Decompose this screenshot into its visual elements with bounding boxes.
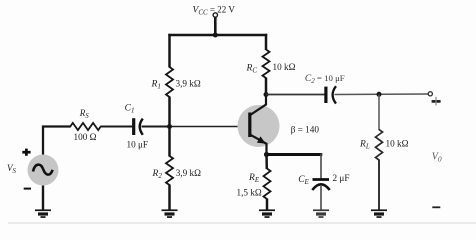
resistor RC xyxy=(263,50,270,79)
node RL junction xyxy=(377,92,382,97)
ground under R2 xyxy=(162,209,178,218)
capacitor C1 curved plate xyxy=(140,119,143,135)
wire RE bottom lead xyxy=(266,199,269,210)
resistor RE xyxy=(264,169,271,200)
transistor Q1 body xyxy=(238,105,280,147)
svg-text:10 μF: 10 μF xyxy=(127,139,149,149)
capacitor CE top plate xyxy=(313,178,330,181)
ground under VS xyxy=(35,209,51,218)
wire base line xyxy=(168,126,249,128)
wire C1 to base node xyxy=(142,126,170,128)
scan artifact line bottom xyxy=(8,222,476,223)
resistor RL xyxy=(376,130,383,161)
svg-text:1,5 kΩ: 1,5 kΩ xyxy=(237,187,262,197)
source plus sign xyxy=(22,149,30,156)
wire R2 top lead xyxy=(168,127,171,157)
node emitter junction xyxy=(264,152,269,157)
wire RL top lead xyxy=(378,94,380,130)
svg-text:C1: C1 xyxy=(125,104,135,115)
wire R1 top lead xyxy=(168,34,171,68)
svg-text:10 kΩ: 10 kΩ xyxy=(273,62,296,72)
ground under CE xyxy=(313,209,329,218)
capacitor C2 curved plate xyxy=(333,86,336,103)
resistor RS xyxy=(70,123,100,130)
source minus sign xyxy=(24,188,31,190)
capacitor CE curved plate xyxy=(312,184,329,190)
node base junction xyxy=(167,124,172,129)
wire VS to RS xyxy=(43,127,71,156)
transistor Q1 collector stroke xyxy=(251,95,267,115)
output plus sign xyxy=(432,97,441,106)
transistor Q1 emitter stroke xyxy=(251,135,267,155)
resistor R2 xyxy=(166,156,173,185)
svg-text:10 kΩ: 10 kΩ xyxy=(386,138,409,148)
transistor Q1 emitter arrow xyxy=(257,136,266,143)
svg-text:R1: R1 xyxy=(151,80,161,91)
svg-text:RL: RL xyxy=(359,139,370,150)
wire R1 bottom lead xyxy=(168,97,171,128)
svg-text:V0: V0 xyxy=(432,152,442,164)
source VS sine xyxy=(33,165,53,175)
wire top rail xyxy=(168,34,267,37)
svg-text:C2 = 10 μF: C2 = 10 μF xyxy=(305,73,345,85)
wire RE top lead xyxy=(265,155,268,170)
svg-text:100 Ω: 100 Ω xyxy=(74,132,97,142)
node VCC rail junction xyxy=(213,33,218,38)
wire RL bottom lead xyxy=(378,160,380,210)
wire CE bottom lead xyxy=(320,186,322,210)
svg-text:RE: RE xyxy=(248,173,260,184)
svg-text:VCC = 22 V: VCC = 22 V xyxy=(193,5,236,17)
svg-text:3,9 kΩ: 3,9 kΩ xyxy=(176,79,201,89)
output terminal xyxy=(428,92,432,96)
resistor R1 xyxy=(166,67,173,97)
svg-text:CE: CE xyxy=(298,175,309,186)
output minus sign xyxy=(432,206,440,208)
capacitor C2 left plate xyxy=(324,87,327,103)
svg-text:VS: VS xyxy=(7,163,17,175)
source VS body xyxy=(28,155,59,186)
wire emitter to CE xyxy=(267,153,323,156)
ground under RE xyxy=(259,209,275,218)
ground under RL xyxy=(371,209,387,218)
svg-text:3,9 kΩ: 3,9 kΩ xyxy=(176,168,201,178)
node collector junction xyxy=(264,92,269,97)
wire RC bottom lead xyxy=(265,78,268,96)
svg-text:2 μF: 2 μF xyxy=(333,173,350,183)
wire C2 to output terminal xyxy=(335,93,430,96)
svg-text:β = 140: β = 140 xyxy=(291,124,320,134)
wire R2 bottom lead xyxy=(168,185,171,210)
wire RC top lead xyxy=(265,34,268,50)
wire RS to C1 xyxy=(100,126,132,128)
capacitor C1 left plate xyxy=(132,118,135,135)
wire VS bottom lead xyxy=(42,186,44,210)
svg-text:R2: R2 xyxy=(152,169,163,180)
wire CE top lead xyxy=(320,154,322,179)
transistor Q1 base bar xyxy=(248,113,251,138)
VCC terminal xyxy=(213,13,217,17)
wire collector to C2 xyxy=(266,94,325,96)
wire VCC stub xyxy=(214,17,217,35)
svg-text:RC: RC xyxy=(246,64,258,75)
svg-text:RS: RS xyxy=(79,108,90,120)
